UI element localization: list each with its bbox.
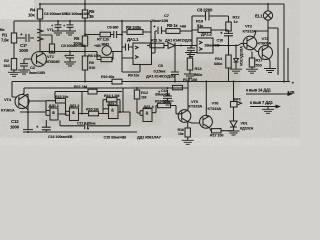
capacitor C5 to ground: [66, 52, 74, 63]
line bottom return: [23, 131, 137, 133]
svg-text:+6В: +6В: [180, 25, 187, 29]
svg-text:С10: С10: [217, 39, 224, 43]
gate DD1.3: [109, 106, 119, 119]
wire G4 out: [152, 106, 180, 114]
gate DD1.1: [50, 108, 58, 120]
ground on vyv7 line: [267, 107, 269, 110]
svg-text:к выв 14 ДД1: к выв 14 ДД1: [246, 88, 272, 93]
resistor R2: [11, 59, 16, 71]
microphone BM1: [102, 46, 111, 55]
wire VT5 emitter to VT6: [188, 122, 200, 123]
svg-text:КТ315А: КТ315А: [243, 29, 257, 34]
svg-text:КТ361А: КТ361А: [1, 108, 15, 113]
svg-text:С3 100мк×10В: С3 100мк×10В: [44, 12, 68, 16]
resistor R1: [11, 33, 16, 43]
wire VT3 emitter: [269, 59, 270, 68]
resistor R13b: [46, 101, 66, 116]
transistor VT4: [15, 95, 29, 109]
capacitor C9 column: [171, 46, 179, 82]
wire x122 column: [122, 21, 140, 72]
capacitor C8 loop: [192, 12, 229, 46]
resistor R15: [173, 85, 183, 89]
resistor R8 mic load: [101, 57, 112, 61]
wire G3 out: [118, 112, 130, 126]
ground under R17: [246, 69, 258, 73]
svg-text:VT6: VT6: [212, 101, 220, 106]
svg-text:VD1: VD1: [241, 122, 248, 126]
transistor VT3: [259, 46, 273, 60]
resistor R11 1M: [88, 89, 97, 94]
capacitor C11: [85, 123, 88, 130]
svg-text:к выв 7 ДД1: к выв 7 ДД1: [250, 100, 274, 105]
svg-text:5мк×10В: 5мк×10В: [29, 70, 45, 75]
svg-text:10к: 10к: [178, 132, 184, 136]
buzzer BF1: [231, 102, 238, 108]
wire y112 row: [20, 111, 46, 113]
resistor R17: [251, 52, 253, 70]
gate DD1.4: [143, 109, 152, 122]
wire line B: [24, 87, 188, 89]
resistor R10: [192, 29, 229, 31]
resistor R13 column: [189, 53, 191, 74]
svg-text:ДД1 К561ЛА7: ДД1 К561ЛА7: [137, 135, 161, 140]
svg-text:ДА1.1: ДА1.1: [127, 37, 139, 42]
svg-text:VD2 КД102А: VD2 КД102А: [240, 46, 244, 66]
capacitor C4 to ground: [67, 21, 74, 31]
svg-text:33мк×6В: 33мк×6В: [205, 44, 220, 48]
op-amp DA1.2: [197, 38, 213, 53]
svg-text:R10 40к: R10 40к: [101, 75, 114, 79]
svg-text:12В: 12В: [288, 90, 295, 95]
capacitor C10: [224, 31, 233, 46]
diode VD1: [230, 107, 237, 131]
line k vyv 7: [250, 106, 277, 108]
wire mid column x85: [84, 21, 86, 52]
capacitor C2: [20, 59, 28, 70]
capacitor C7: [158, 27, 166, 35]
lamp EL1: [263, 11, 272, 20]
svg-text:С4 100мк×10В: С4 100мк×10В: [66, 12, 90, 16]
op-amp DA1.1: [133, 43, 152, 65]
resistor R15b 1M: [89, 111, 99, 116]
resistor R14b: [103, 100, 120, 114]
svg-text:С8 2200: С8 2200: [197, 8, 213, 13]
wire bus2: [14, 20, 151, 22]
dual-diode element VD: [37, 21, 52, 51]
resistor R10a: [166, 29, 180, 34]
capacitor C1: [17, 34, 34, 42]
svg-text:910: 910: [4, 63, 11, 68]
wire VT6 emitter: [210, 128, 212, 131]
resistor R3: [49, 44, 54, 53]
resistor R4: [39, 4, 41, 21]
transistor VT5: [178, 110, 191, 123]
resistor R5: [84, 0, 86, 21]
wire lamp to VT3: [267, 4, 269, 46]
wire right rail: [283, 4, 285, 82]
resistor R12: [226, 22, 231, 31]
wire BF1 column: [233, 82, 235, 102]
svg-text:С15 33мк×6В: С15 33мк×6В: [104, 136, 127, 140]
svg-text:ДА1.2: ДА1.2: [201, 32, 213, 37]
wire VT2 emitter to VT3 base: [254, 49, 259, 52]
wire y91 row: [55, 88, 123, 112]
wire rail x288: [287, 48, 289, 82]
transistor VT6: [200, 115, 213, 128]
diode VD2 column: [234, 46, 239, 70]
wire to ground right: [228, 131, 240, 135]
gate DD1.2: [70, 108, 79, 121]
svg-text:51к: 51к: [197, 23, 203, 28]
line k vyv 14: [246, 93, 288, 95]
wire VT2 collector: [254, 28, 278, 75]
output riser: [152, 31, 158, 53]
svg-text:ДА1 К1401УД2Б: ДА1 К1401УД2Б: [165, 39, 193, 43]
capacitor input to DA1.1: [122, 44, 133, 59]
svg-text:R11 1М: R11 1М: [74, 84, 88, 89]
transistor VT1: [32, 52, 47, 67]
diode VD row and resistor: [147, 45, 168, 47]
wire C11 row: [60, 120, 130, 125]
svg-text:510: 510: [256, 63, 263, 68]
svg-text:R9 1к: R9 1к: [167, 23, 178, 28]
wire VT4 out: [26, 94, 29, 112]
wire VT6 collector: [206, 82, 209, 116]
resistor R16: [158, 103, 171, 107]
svg-text:39: 39: [89, 14, 94, 19]
svg-text:EL1: EL1: [255, 14, 263, 19]
ground under R2: [13, 70, 15, 72]
wire VT4 to gate: [28, 100, 46, 102]
wire line A: [12, 81, 290, 83]
wire to VT2 base: [213, 45, 238, 47]
svg-text:R8 240к: R8 240к: [126, 25, 142, 30]
svg-text:R17 100: R17 100: [210, 134, 223, 138]
resistor R6: [82, 36, 87, 46]
svg-text:R11 1к: R11 1к: [151, 39, 162, 43]
svg-text:1000: 1000: [10, 125, 20, 130]
svg-text:1к: 1к: [234, 19, 238, 24]
resistor R7: [100, 32, 111, 37]
svg-text:7,5к: 7,5к: [1, 38, 10, 43]
capacitor C3 to ground: [55, 21, 62, 31]
svg-text:КТ315А: КТ315А: [189, 104, 203, 109]
svg-text:С12: С12: [11, 119, 19, 124]
svg-text:20мк×10В: 20мк×10В: [151, 19, 168, 23]
mid bus: [39, 51, 122, 53]
capacitor C13: [163, 90, 172, 101]
resistor R18 column: [187, 123, 189, 129]
svg-text:10к: 10к: [28, 13, 35, 18]
wire VT5 collector: [187, 82, 189, 111]
junction dots: [39, 3, 41, 5]
resistor R8 feedback: [122, 21, 151, 43]
resistor R18: [212, 129, 222, 133]
svg-text:КТ805А: КТ805А: [258, 41, 272, 46]
wire G2 to G3: [79, 92, 104, 114]
wire left column: [13, 21, 15, 59]
resistor R9 lower: [84, 52, 86, 82]
capacitor C14: [42, 120, 51, 132]
transistor VT2: [243, 36, 257, 50]
diode VD2: [168, 43, 197, 49]
capacitor C-in DA1.2: [187, 46, 195, 53]
resistor R14 column: [228, 46, 230, 82]
svg-text:КД102А: КД102А: [240, 126, 254, 130]
svg-text:С14 100мк×6В: С14 100мк×6В: [48, 135, 73, 139]
wire top bus: [40, 3, 284, 5]
capacitor C6 row: [85, 31, 122, 38]
svg-text:BF1: BF1: [234, 98, 241, 102]
resistor R12b column: [137, 88, 143, 115]
svg-text:С6 680: С6 680: [107, 26, 118, 30]
wire VT4 feeds: [12, 82, 24, 98]
svg-text:VT4: VT4: [4, 97, 12, 102]
svg-text:КТ315А: КТ315А: [208, 106, 222, 111]
resistor R10b inline: [112, 79, 122, 84]
capacitor C12: [23, 112, 33, 132]
